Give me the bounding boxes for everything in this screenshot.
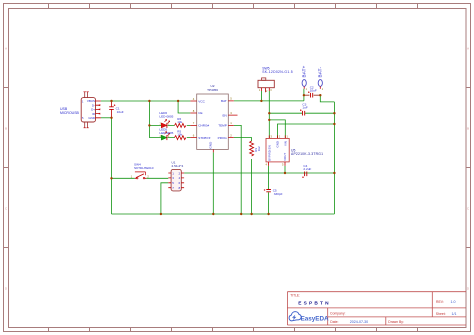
svg-text:10k: 10k: [177, 133, 182, 137]
wire U5 GND up and right: [278, 124, 335, 138]
wire red LED to R6 to U2 CHRG: [168, 124, 191, 126]
wire R3 bottom to ground: [251, 159, 253, 214]
U2 left pins: [190, 101, 196, 138]
wire U2 TEMP to ground: [234, 125, 241, 214]
svg-text:2.2uF: 2.2uF: [303, 167, 311, 171]
svg-text:Date:: Date:: [330, 320, 338, 324]
svg-text:Sheet:: Sheet:: [436, 312, 446, 316]
wire green LED to R5 to U2 STDBY: [168, 137, 191, 139]
svg-text:GND: GND: [276, 141, 280, 147]
wire VBUS rail USB to U2 VCC: [101, 100, 190, 102]
svg-text:D: D: [467, 287, 469, 291]
svg-text:BAT: BAT: [221, 99, 227, 103]
wire U2 GND bottom to rail: [212, 152, 214, 214]
svg-text:1/1: 1/1: [452, 312, 457, 316]
U2 GND bottom pin: [212, 149, 214, 152]
svg-text:MICROUSB: MICROUSB: [60, 111, 80, 115]
wire GND left vertical: [111, 118, 113, 214]
capacitor C2: [308, 85, 317, 97]
svg-text:VCC: VCC: [198, 99, 205, 103]
capacitor C4: [302, 164, 311, 178]
svg-text:TEMP: TEMP: [218, 124, 227, 128]
svg-text:LED-0805: LED-0805: [159, 114, 173, 118]
svg-text:STDBY#: STDBY#: [198, 136, 210, 140]
wire SW4 row: [112, 177, 169, 179]
svg-text:ESPBTN: ESPBTN: [298, 301, 331, 307]
svg-text:AP2210K-3.3TRG1: AP2210K-3.3TRG1: [291, 152, 323, 156]
svg-text:GND: GND: [209, 141, 213, 149]
connector BAT-: [318, 67, 324, 91]
wire SW5 right leg down: [268, 91, 270, 120]
svg-text:2024-07-30: 2024-07-30: [350, 320, 368, 324]
resistor R3: [250, 141, 261, 156]
svg-text:SKTDLHE010: SKTDLHE010: [134, 166, 154, 170]
svg-text:CHRG#: CHRG#: [198, 124, 209, 128]
wire U2 BAT to BAT+: [234, 100, 304, 102]
capacitor C3: [300, 102, 308, 115]
wire right ground vertical: [333, 102, 335, 214]
regulator U5 AP2112K-3.3TRG1: [266, 134, 324, 166]
LED5 green LED-0805: [159, 128, 173, 141]
wire LED feed vertical: [149, 101, 161, 138]
junction dots: [110, 94, 335, 215]
svg-text:A: A: [5, 47, 7, 51]
LED6 red LED-0805: [159, 111, 173, 128]
svg-text:2.54-2*4: 2.54-2*4: [172, 164, 184, 168]
svg-text:VIN: VIN: [283, 141, 287, 146]
svg-text:C: C: [467, 207, 469, 211]
wire U2 PROG to R3: [234, 138, 252, 141]
wire U5 BYP down through C5: [268, 166, 270, 214]
wire CE feed: [178, 101, 190, 113]
header U1 2.54-2*4: [168, 161, 184, 191]
connector BAT+: [301, 65, 307, 91]
op-amp U2 TP4056 body: [190, 84, 237, 152]
svg-text:1k2: 1k2: [257, 146, 261, 151]
svg-text:CE: CE: [198, 111, 202, 115]
svg-text:BYP/RD EN: BYP/RD EN: [267, 145, 271, 161]
svg-text:C: C: [5, 207, 7, 211]
svg-text:10uF: 10uF: [310, 89, 317, 93]
svg-text:D: D: [5, 287, 7, 291]
title block: [287, 292, 466, 325]
svg-text:GND: GND: [88, 116, 96, 120]
EasyEDA logo: [289, 312, 329, 323]
svg-text:Drawn By:: Drawn By:: [388, 320, 404, 324]
switch SW5 SK-12D02N-G1.5: [258, 67, 293, 94]
wire BAT+ down: [303, 89, 305, 101]
svg-text:VOUT: VOUT: [283, 153, 287, 161]
svg-text:LED-0805: LED-0805: [159, 131, 173, 135]
svg-text:EasyEDA: EasyEDA: [301, 316, 329, 323]
svg-text:BAT-: BAT-: [318, 67, 323, 78]
switch SW4 SKTDLHE010: [131, 162, 154, 179]
wire GND bottom rail: [112, 213, 335, 215]
resistor R6: [175, 117, 186, 127]
svg-text:B: B: [467, 127, 469, 131]
wire VOUT rail U1 to right vertical: [184, 172, 334, 174]
svg-text:A: A: [467, 47, 469, 51]
wire USB GND to C1 bottom: [101, 117, 112, 119]
svg-text:BAT+: BAT+: [301, 65, 306, 77]
U2 right pins: [228, 101, 237, 138]
svg-text:EN: EN: [222, 113, 226, 117]
wire C3 row: [269, 112, 334, 114]
capacitor C5: [264, 188, 283, 195]
svg-text:PROG: PROG: [218, 136, 228, 140]
svg-text:SK-12D02N-G1.5: SK-12D02N-G1.5: [262, 70, 293, 74]
wire U5 VOUT down to rail: [284, 166, 286, 174]
wire C2 row: [304, 94, 320, 96]
svg-text:REV:: REV:: [436, 300, 444, 304]
svg-text:10k: 10k: [177, 120, 182, 124]
wire VIN feed: [269, 120, 285, 138]
wire SW5 left leg down: [260, 91, 262, 101]
frame zone letters: [5, 47, 469, 291]
svg-text:1.0: 1.0: [451, 300, 456, 304]
wire BAT- down right: [320, 95, 334, 102]
svg-text:TP4056: TP4056: [207, 88, 218, 92]
capacitor C1: [109, 104, 124, 114]
wire C1 leads: [111, 101, 113, 118]
resistor R5: [175, 129, 186, 139]
wire U1 row3 to ground: [161, 183, 168, 214]
wire EN feed: [268, 120, 270, 138]
svg-text:B: B: [5, 127, 7, 131]
USB connector USB1 MICROUSB: [81, 92, 101, 128]
svg-text:330pF: 330pF: [274, 192, 283, 196]
svg-text:10uF: 10uF: [117, 110, 124, 114]
svg-text:Company:: Company:: [330, 312, 346, 316]
svg-text:1uF: 1uF: [302, 106, 307, 110]
label USB MICROUSB: [60, 107, 80, 115]
svg-text:TITLE:: TITLE:: [290, 293, 300, 297]
